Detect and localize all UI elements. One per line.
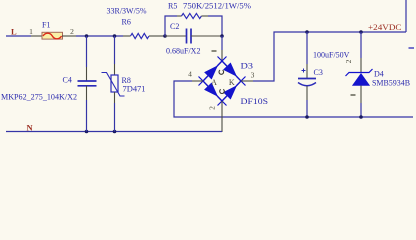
bridge rectifier D3 xyxy=(199,57,246,106)
svg-text:2: 2 xyxy=(344,59,353,63)
junction node A (R8 tap) xyxy=(113,34,117,38)
zener D4 pin 2 xyxy=(360,58,362,73)
svg-text:R5: R5 xyxy=(168,2,177,11)
junction +24 bus C3 xyxy=(305,30,309,34)
varistor R8 xyxy=(102,73,125,97)
svg-text:K: K xyxy=(229,78,235,87)
svg-text:4: 4 xyxy=(188,70,192,79)
svg-text:C2: C2 xyxy=(170,22,179,31)
diode bottom-left (points to bottom vertex) xyxy=(205,83,217,96)
resistor R5 xyxy=(182,13,202,18)
fuse F1 xyxy=(42,32,63,39)
svg-text:0.68uF/X2: 0.68uF/X2 xyxy=(166,47,200,56)
svg-text:SMB5934B: SMB5934B xyxy=(372,79,410,88)
wire bus down to D4 xyxy=(360,32,362,58)
wire N bus xyxy=(6,131,222,133)
bridge D3 pin 1 xyxy=(221,50,223,62)
svg-text:D4: D4 xyxy=(374,70,384,79)
resistor R5 pin 1 xyxy=(177,15,182,17)
svg-text:A: A xyxy=(211,78,217,87)
wire C4 to N bus xyxy=(86,100,88,132)
svg-text:100uF/50V: 100uF/50V xyxy=(313,51,350,60)
diode top-left (points to top vertex) xyxy=(205,66,217,79)
wire R5 loop right riser xyxy=(208,16,222,36)
junction rail C3 xyxy=(305,115,309,119)
zener D4 pin 1 xyxy=(360,86,362,104)
diode bottom-right (points to right vertex) xyxy=(224,86,236,99)
svg-text:C3: C3 xyxy=(314,68,323,77)
svg-text:7D471: 7D471 xyxy=(123,85,146,94)
bridge D3 pin 3 xyxy=(241,80,253,82)
capacitor C4 pin 2 xyxy=(86,86,88,100)
svg-text:MKP62_275_104K/X2: MKP62_275_104K/X2 xyxy=(1,93,77,102)
X mark bottom vertex xyxy=(218,97,227,106)
capacitor C2 pin 1 xyxy=(165,35,186,37)
wire C3 to negative rail xyxy=(306,100,308,117)
pin number 1 of D3 (rotated) xyxy=(212,50,217,52)
capacitor C3 pin 2 xyxy=(306,86,308,100)
resistor R6 xyxy=(131,33,150,38)
wire L input xyxy=(6,35,31,37)
svg-text:+24VDC: +24VDC xyxy=(368,22,402,32)
resistor R6 pin 1 xyxy=(123,35,131,37)
svg-text:F1: F1 xyxy=(42,21,50,30)
junction node B right xyxy=(220,34,224,38)
capacitor C2 xyxy=(187,29,192,44)
svg-text:C4: C4 xyxy=(63,76,72,85)
bridge D3 pin 4 xyxy=(192,80,203,82)
capacitor C3 pin 1 xyxy=(306,64,308,79)
bridge D3 pin 2 xyxy=(221,101,223,132)
junction N bus R8 xyxy=(113,130,117,134)
wire pin 4 to negative rail xyxy=(174,81,413,117)
X mark top vertex xyxy=(218,57,227,66)
svg-text:750K/2512/1W/5%: 750K/2512/1W/5% xyxy=(183,2,251,11)
diode top-right (points to right vertex) xyxy=(224,63,236,76)
X mark right vertex xyxy=(237,77,246,86)
wire R5 loop left riser xyxy=(165,16,177,36)
wire +24VDC exit up xyxy=(405,0,407,32)
varistor R8 pin 1 xyxy=(114,64,116,75)
wire node B to bridge pin 1 xyxy=(221,36,223,50)
wire node A down to C4 xyxy=(86,36,88,67)
fuse F1 pin 1 xyxy=(31,35,43,37)
svg-text:3: 3 xyxy=(251,71,255,80)
capacitor C2 pin 2 xyxy=(191,35,222,37)
junction node A (C4 tap) xyxy=(85,34,89,38)
svg-text:33R/3W/5%: 33R/3W/5% xyxy=(107,7,147,16)
svg-text:2: 2 xyxy=(208,106,217,110)
capacitor C4 pin 1 xyxy=(86,67,88,81)
resistor R6 pin 2 xyxy=(149,35,164,37)
wire F1 to node A xyxy=(76,35,123,37)
svg-text:DF10S: DF10S xyxy=(241,97,269,106)
capacitor C3 (polarized) xyxy=(298,69,316,86)
wire D4 to negative rail xyxy=(360,103,362,117)
junction rail D4 xyxy=(359,115,363,119)
resistor R5 pin 2 xyxy=(201,15,208,17)
svg-text:L: L xyxy=(11,27,17,37)
junction node B left xyxy=(163,34,167,38)
wire node A down to R8 xyxy=(114,36,116,64)
svg-text:R6: R6 xyxy=(122,18,131,27)
svg-text:2: 2 xyxy=(70,27,74,36)
svg-text:D3: D3 xyxy=(241,62,254,71)
junction N bus C4 xyxy=(85,130,89,134)
fuse F1 pin 2 xyxy=(62,35,76,37)
pin number 1 of D4 (rotated) xyxy=(351,94,356,96)
X mark left vertex xyxy=(199,77,208,86)
varistor R8 pin 2 xyxy=(114,92,116,103)
wire bus down to C3 xyxy=(306,32,308,64)
svg-text:1: 1 xyxy=(29,27,33,36)
AC mark bottom (pin glyph) xyxy=(220,89,225,93)
zener diode D4 xyxy=(346,69,373,86)
capacitor C4 xyxy=(78,81,97,86)
wire R8 to N bus xyxy=(114,103,116,132)
AC mark top (pin glyph) xyxy=(219,70,224,74)
junction +24 bus D4 xyxy=(359,30,363,34)
wire pin 3 to +24VDC bus xyxy=(253,32,406,81)
stray mark right edge xyxy=(409,47,415,49)
